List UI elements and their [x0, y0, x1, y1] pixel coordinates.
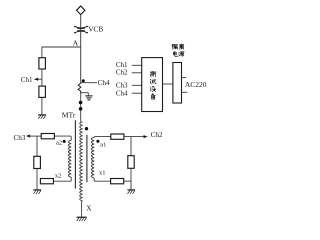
text 试 (test) — [150, 79, 156, 84]
resistor right burden — [128, 156, 134, 169]
terminal diamond (incoming HV terminal) — [77, 6, 85, 15]
Ch3 arrow — [26, 135, 30, 138]
text 测 (measure) — [150, 71, 156, 76]
Ch1 tap arrow — [34, 78, 38, 81]
svg-text:VCB: VCB — [88, 25, 103, 34]
ground (divider) — [38, 114, 46, 116]
text 源 — [179, 52, 185, 57]
wire divider to ground — [41, 97, 43, 114]
wire resistor to Ch2 arrow — [144, 135, 148, 138]
wire x2 lead — [53, 180, 71, 182]
svg-text:Ch4: Ch4 — [98, 79, 110, 87]
wire top of divider — [41, 47, 43, 58]
primary winding A-X — [80, 122, 83, 201]
wire Ch1 input — [132, 64, 142, 66]
text 设 (equip) — [150, 87, 155, 92]
wire x1 lead — [93, 178, 95, 181]
core line left — [74, 120, 76, 188]
wire Ch3 input — [132, 84, 142, 86]
text 隔 — [172, 44, 177, 49]
left branch vertical wire — [36, 136, 38, 157]
wire burden to x1 node — [130, 168, 132, 189]
wire Ch2 input — [132, 72, 142, 74]
svg-text:Ch4: Ch4 — [116, 89, 128, 97]
svg-text:Ch3: Ch3 — [14, 134, 26, 142]
text 电 — [173, 51, 177, 56]
wire primary to X ground — [81, 201, 83, 217]
svg-text:a2: a2 — [56, 140, 62, 147]
svg-text:MTr: MTr — [62, 111, 76, 120]
ground (right burden) — [127, 189, 135, 191]
svg-text:a1: a1 — [100, 142, 106, 149]
wire test box to PSU — [163, 83, 173, 85]
resistor Ch2 lead — [111, 134, 124, 139]
svg-text:x1: x1 — [99, 169, 106, 176]
wire arrester to earth — [81, 92, 89, 94]
core line right — [86, 135, 88, 182]
junction dot upper — [79, 101, 83, 105]
primary polarity dot — [85, 127, 88, 130]
junction dot lower — [79, 107, 83, 111]
polarity dot a1 — [96, 140, 99, 143]
text 备 (ment) — [151, 93, 155, 99]
wire Ch4 tap — [81, 82, 97, 84]
wire a2 lead — [70, 136, 72, 140]
ground at X — [77, 216, 87, 218]
polarity dot a2 — [63, 140, 66, 143]
node A horizontal wire — [42, 46, 81, 48]
svg-text:Ch2: Ch2 — [151, 131, 163, 139]
resistor left burden — [34, 156, 41, 168]
svg-text:X: X — [86, 203, 92, 212]
main wire to transformer — [80, 92, 82, 122]
svg-text:Ch2: Ch2 — [116, 69, 128, 77]
svg-text:A: A — [73, 39, 79, 48]
wire burden to x2 node — [36, 169, 38, 190]
text 离 — [179, 44, 184, 50]
arrester / damping element on main line — [78, 83, 81, 93]
circuit breaker VCB symbol — [75, 26, 88, 28]
resistor x1 lead — [111, 179, 124, 184]
main vertical wire A down — [80, 47, 82, 84]
AC220 terminal upper — [182, 77, 187, 79]
right branch vertical wire — [130, 136, 132, 156]
svg-text:AC220: AC220 — [185, 80, 207, 89]
wire resistor to Ch3 junction — [29, 135, 41, 137]
wire between divider elements — [41, 69, 43, 86]
capacitor/resistor C1 upper — [39, 58, 46, 69]
svg-text:Ch3: Ch3 — [116, 81, 128, 89]
svg-text:x2: x2 — [55, 172, 62, 179]
junction dot Ch4 tap — [82, 79, 85, 82]
secondary winding a2-x2 — [68, 140, 71, 177]
wire a1 lead — [93, 136, 95, 139]
AC220 terminal lower — [182, 91, 188, 93]
isolation PSU box — [173, 63, 182, 104]
wire Ch4 input — [132, 92, 142, 94]
secondary winding a1-x1 — [91, 137, 94, 178]
svg-text:Ch1: Ch1 — [21, 76, 33, 84]
ground (left burden) — [33, 189, 41, 191]
capacitor/resistor C2 lower — [39, 86, 46, 97]
wire diamond to VCB — [80, 15, 82, 47]
earth ground (arrester) — [85, 95, 92, 97]
resistor Ch3 lead — [41, 134, 54, 139]
test equipment box — [142, 58, 163, 112]
resistor x2 lead — [40, 179, 53, 184]
